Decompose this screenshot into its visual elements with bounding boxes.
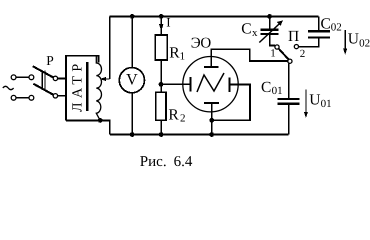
- voltage arrow U02: [344, 30, 346, 53]
- switch P2 contact 2: [294, 45, 298, 49]
- terminal bottom-right: [29, 95, 34, 100]
- switch P contact bottom: [53, 94, 57, 98]
- resistor R2: [156, 92, 166, 120]
- svg-text:1: 1: [270, 48, 276, 60]
- junction LATR bottom: [98, 118, 103, 123]
- wire junction to scope left plate: [161, 83, 189, 85]
- junction top Cx: [267, 14, 272, 19]
- terminal top-left: [11, 75, 16, 80]
- svg-text:02: 02: [331, 22, 342, 34]
- svg-text:2: 2: [300, 48, 306, 60]
- switch P2 contact 1: [275, 45, 279, 49]
- wire LATR tap riser: [109, 16, 111, 79]
- svg-text:х: х: [252, 27, 258, 39]
- scope plate right: [229, 78, 231, 92]
- voltmeter V: [119, 68, 144, 93]
- wire bottom bus: [110, 134, 289, 136]
- svg-text:C: C: [261, 79, 271, 96]
- terminal top-right: [29, 75, 34, 80]
- svg-text:6.4: 6.4: [174, 154, 193, 170]
- svg-text:I: I: [166, 15, 170, 30]
- wire C01 to bottom bus: [288, 105, 290, 135]
- svg-text:ЛАТР: ЛАТР: [71, 59, 86, 112]
- junction top voltmeter: [130, 14, 135, 19]
- svg-text:02: 02: [359, 37, 370, 49]
- svg-text:C: C: [241, 20, 251, 37]
- wire contact 2 to C02: [299, 39, 319, 47]
- svg-text:2: 2: [180, 113, 186, 125]
- svg-text:C: C: [321, 15, 331, 32]
- junction scope bottom: [209, 118, 214, 123]
- wire voltmeter bottom: [131, 93, 133, 135]
- junction bottom oscilloscope: [209, 132, 214, 137]
- AC source symbol ~: [3, 86, 14, 89]
- switch P contact top: [53, 76, 57, 80]
- scope plate left: [189, 77, 191, 91]
- wire top terminal pair: [16, 76, 29, 78]
- wire bottom terminal pair: [16, 97, 29, 99]
- junction R1 R2: [159, 82, 164, 87]
- capacitor C02: [318, 16, 320, 32]
- wire voltmeter top: [131, 16, 133, 67]
- wire R2 bottom: [160, 120, 162, 134]
- wire Cx to contact 1: [270, 35, 275, 46]
- svg-text:R: R: [168, 107, 179, 124]
- svg-text:R: R: [169, 45, 180, 62]
- switch P blade bottom: [33, 84, 53, 95]
- svg-text:Рис.: Рис.: [140, 154, 167, 170]
- oscilloscope EO body: [183, 56, 238, 111]
- wire LATR bottom elbow: [100, 120, 110, 134]
- wire current arrow I: [160, 16, 162, 35]
- transformer LATR box: [66, 56, 99, 121]
- junction top R1: [159, 14, 164, 19]
- LATR winding coil: [96, 56, 101, 121]
- svg-text:П: П: [288, 28, 299, 45]
- resistor R1: [155, 35, 167, 60]
- LATR tap arrow: [104, 78, 110, 80]
- svg-text:1: 1: [180, 51, 186, 63]
- capacitor Cx variable: [269, 16, 271, 29]
- svg-text:01: 01: [321, 98, 332, 110]
- scope plate bottom: [204, 102, 219, 104]
- terminal bottom-left: [11, 95, 16, 100]
- wire scope right plate loop: [212, 84, 250, 120]
- LATR core bar: [86, 62, 88, 111]
- wire scope bottom plate: [211, 103, 213, 135]
- LATR box bottom edge: [66, 119, 100, 121]
- wire top bus: [110, 15, 319, 17]
- wire R1 to R2: [160, 60, 162, 92]
- wire switch to LATR bottom: [58, 95, 66, 97]
- svg-text:U: U: [348, 30, 359, 47]
- junction bottom voltmeter: [130, 132, 135, 137]
- junction bottom R2: [159, 132, 164, 137]
- scope plate top: [204, 66, 219, 68]
- wire switch to LATR top: [58, 77, 66, 79]
- svg-text:01: 01: [272, 85, 283, 97]
- svg-text:ЭО: ЭО: [191, 36, 212, 52]
- switch P2 blade: [279, 49, 289, 60]
- voltage arrow U01: [305, 89, 307, 116]
- capacitor C01: [278, 98, 300, 100]
- switch P2 pivot: [288, 59, 292, 63]
- scope sweep zigzag: [197, 73, 224, 92]
- wire pivot to C01: [288, 63, 290, 98]
- svg-text:Р: Р: [46, 53, 54, 68]
- svg-text:U: U: [309, 91, 320, 108]
- wire scope top plate to pivot: [211, 49, 288, 67]
- switch P blade top: [33, 66, 54, 77]
- switch P link bar: [42, 70, 45, 89]
- svg-text:V: V: [126, 71, 138, 88]
